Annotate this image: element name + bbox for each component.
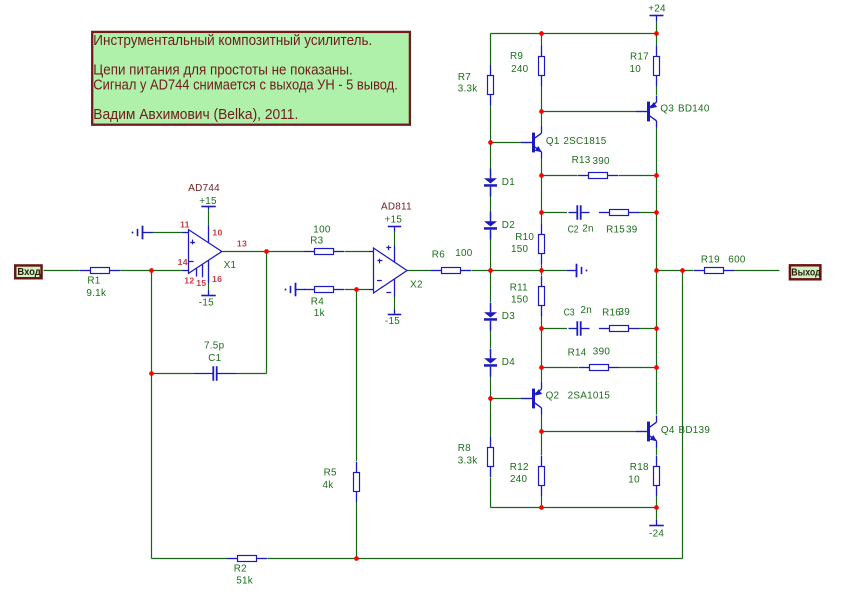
svg-text:2n: 2n bbox=[582, 224, 594, 235]
svg-text:150: 150 bbox=[511, 295, 529, 306]
svg-text:R13: R13 bbox=[572, 155, 591, 166]
svg-text:R7: R7 bbox=[458, 72, 471, 83]
svg-text:39: 39 bbox=[619, 307, 631, 318]
svg-text:39: 39 bbox=[626, 225, 638, 236]
svg-text:240: 240 bbox=[510, 474, 528, 485]
svg-text:D3: D3 bbox=[502, 311, 515, 322]
svg-text:Вход: Вход bbox=[17, 266, 41, 278]
svg-text:240: 240 bbox=[511, 64, 529, 75]
svg-text:C2: C2 bbox=[568, 225, 579, 236]
svg-text:Q1: Q1 bbox=[546, 136, 560, 147]
svg-text:13: 13 bbox=[237, 238, 247, 248]
svg-text:D2: D2 bbox=[502, 220, 515, 231]
svg-text:2SC1815: 2SC1815 bbox=[563, 136, 606, 147]
svg-text:+15: +15 bbox=[199, 196, 217, 207]
svg-text:C3: C3 bbox=[564, 308, 575, 319]
svg-text:R14: R14 bbox=[568, 348, 587, 359]
svg-text:600: 600 bbox=[728, 254, 746, 265]
svg-text:R19: R19 bbox=[701, 255, 720, 266]
svg-text:-15: -15 bbox=[385, 316, 400, 327]
svg-text:11: 11 bbox=[180, 219, 190, 229]
svg-text:390: 390 bbox=[593, 346, 611, 357]
svg-text:R11: R11 bbox=[510, 283, 528, 294]
svg-text:Q2: Q2 bbox=[546, 390, 560, 401]
svg-text:AD744: AD744 bbox=[188, 183, 220, 194]
svg-text:Сигнал у AD744 снимается с вых: Сигнал у AD744 снимается с выхода УН - 5… bbox=[93, 78, 398, 94]
svg-text:12: 12 bbox=[184, 275, 194, 285]
svg-text:-15: -15 bbox=[199, 297, 214, 308]
svg-text:16: 16 bbox=[212, 274, 222, 284]
svg-text:R2: R2 bbox=[234, 564, 247, 575]
svg-text:X2: X2 bbox=[410, 279, 423, 290]
svg-text:14: 14 bbox=[178, 257, 188, 267]
svg-text:R10: R10 bbox=[515, 232, 534, 243]
svg-text:Q3: Q3 bbox=[660, 104, 674, 115]
svg-text:10: 10 bbox=[212, 227, 222, 237]
svg-text:R3: R3 bbox=[310, 236, 323, 247]
svg-text:-24: -24 bbox=[649, 528, 664, 539]
svg-text:Q4: Q4 bbox=[661, 425, 675, 436]
svg-text:Вадим Авхимович (Belka), 2011.: Вадим Авхимович (Belka), 2011. bbox=[93, 107, 298, 123]
svg-text:BD139: BD139 bbox=[679, 425, 711, 436]
svg-text:2n: 2n bbox=[581, 305, 593, 316]
svg-text:9.1k: 9.1k bbox=[86, 288, 106, 299]
svg-text:R1: R1 bbox=[87, 276, 100, 287]
svg-text:7.5p: 7.5p bbox=[204, 340, 225, 351]
svg-text:R5: R5 bbox=[324, 468, 337, 479]
svg-text:D1: D1 bbox=[502, 177, 515, 188]
svg-text:3.3k: 3.3k bbox=[458, 455, 478, 466]
svg-text:4k: 4k bbox=[323, 480, 334, 491]
svg-text:R18: R18 bbox=[630, 462, 649, 473]
svg-text:3.3k: 3.3k bbox=[458, 83, 478, 94]
svg-text:R15: R15 bbox=[606, 225, 625, 236]
svg-text:2SA1015: 2SA1015 bbox=[568, 390, 611, 401]
svg-text:D4: D4 bbox=[502, 357, 515, 368]
svg-text:R8: R8 bbox=[458, 443, 471, 454]
svg-text:BD140: BD140 bbox=[678, 104, 710, 115]
svg-text:AD811: AD811 bbox=[381, 202, 412, 213]
svg-text:15: 15 bbox=[196, 278, 206, 288]
svg-text:Цепи питания для простоты не п: Цепи питания для простоты не показаны. bbox=[93, 63, 353, 79]
svg-text:+15: +15 bbox=[385, 215, 403, 226]
svg-text:X1: X1 bbox=[224, 260, 237, 271]
svg-text:C1: C1 bbox=[208, 353, 221, 364]
svg-text:10: 10 bbox=[630, 64, 642, 75]
svg-text:1k: 1k bbox=[314, 308, 325, 319]
svg-text:R12: R12 bbox=[510, 462, 529, 473]
svg-text:51k: 51k bbox=[236, 576, 253, 587]
svg-text:Инструментальный композитный у: Инструментальный композитный усилитель. bbox=[93, 33, 372, 49]
svg-text:R17: R17 bbox=[630, 51, 649, 62]
svg-text:100: 100 bbox=[455, 248, 473, 259]
svg-text:R9: R9 bbox=[510, 51, 523, 62]
svg-text:R4: R4 bbox=[311, 297, 324, 308]
svg-text:150: 150 bbox=[511, 244, 529, 255]
svg-text:100: 100 bbox=[313, 224, 331, 235]
svg-text:R6: R6 bbox=[432, 249, 445, 260]
svg-text:390: 390 bbox=[593, 156, 611, 167]
svg-text:+24: +24 bbox=[648, 4, 666, 15]
svg-text:Выход: Выход bbox=[791, 266, 821, 278]
svg-text:10: 10 bbox=[628, 474, 640, 485]
